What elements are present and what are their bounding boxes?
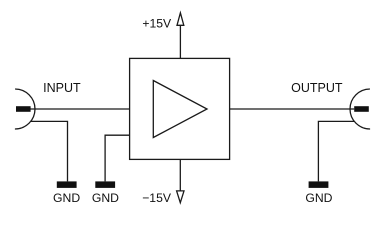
connector J1 input tip contact bbox=[16, 106, 31, 112]
op-amp U1 triangle bbox=[153, 81, 207, 138]
ground bar right bbox=[309, 181, 329, 188]
wire -15V supply vertical bbox=[179, 159, 181, 191]
svg-text:INPUT: INPUT bbox=[43, 81, 81, 95]
op-amp U1 box bbox=[130, 58, 230, 159]
svg-text:GND: GND bbox=[53, 191, 80, 205]
ground bar middle bbox=[95, 181, 115, 188]
wire input sleeve to ground bbox=[30, 121, 67, 181]
wire box output to jack bbox=[230, 108, 355, 110]
svg-text:OUTPUT: OUTPUT bbox=[291, 81, 343, 95]
arrowhead -15V bbox=[177, 191, 184, 203]
wire output sleeve to ground bbox=[318, 121, 354, 181]
svg-text:+15V: +15V bbox=[142, 16, 172, 30]
arrowhead +15V bbox=[177, 13, 184, 25]
wire +15V supply vertical bbox=[179, 25, 181, 58]
connector J2 output tip contact bbox=[354, 106, 369, 112]
ground bar left bbox=[57, 181, 77, 188]
wire box lower-left to middle ground bbox=[105, 135, 130, 181]
connector J1 input jack shell arc bbox=[15, 89, 35, 129]
svg-text:GND: GND bbox=[305, 191, 332, 205]
wire input tip to box bbox=[30, 108, 129, 110]
svg-text:GND: GND bbox=[92, 191, 119, 205]
connector J2 output jack shell arc bbox=[350, 89, 370, 129]
svg-text:−15V: −15V bbox=[142, 191, 172, 205]
